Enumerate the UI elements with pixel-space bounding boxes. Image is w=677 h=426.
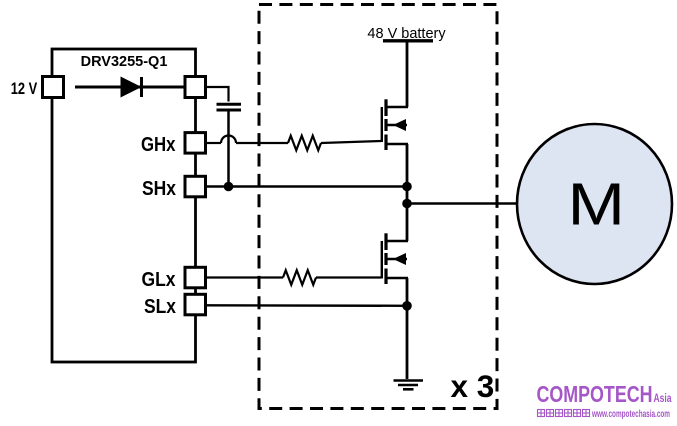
junction dot (switch node / motor) bbox=[402, 199, 412, 209]
resistor R2 (low-side gate) bbox=[283, 270, 316, 285]
svg-text:www.compotechasia.com: www.compotechasia.com bbox=[591, 408, 670, 420]
pin box VM (top right of driver) bbox=[185, 77, 206, 98]
svg-text:SHx: SHx bbox=[142, 177, 177, 200]
wire switch node to motor bbox=[407, 202, 517, 204]
wire GHx to hop bbox=[206, 142, 222, 144]
pin box SHx bbox=[185, 176, 206, 197]
wire hop over capacitor net bbox=[221, 136, 236, 144]
dashed enclosure (x3 half-bridge boundary) bbox=[259, 5, 497, 409]
transistor Q1 (high-side NMOS) bbox=[382, 99, 408, 150]
svg-text:DRV3255-Q1: DRV3255-Q1 bbox=[81, 54, 168, 70]
pin box 12V supply input bbox=[43, 77, 64, 98]
logo tagline CJK glyph 5 bbox=[574, 410, 581, 417]
svg-text:COMPOTECH: COMPOTECH bbox=[537, 381, 653, 407]
junction dot (SLx / ground net) bbox=[402, 301, 412, 311]
svg-text:SLx: SLx bbox=[144, 295, 176, 318]
battery rail bar bbox=[383, 39, 433, 42]
wire GLx to gate resistor bbox=[206, 276, 284, 278]
diode D1 (reverse protection) bbox=[121, 77, 142, 98]
svg-text:GHx: GHx bbox=[141, 133, 176, 156]
wire resistor to Q2 gate bbox=[316, 276, 381, 278]
wire SHx to switch node bbox=[206, 185, 408, 187]
logo tagline CJK glyph 1 bbox=[538, 410, 545, 417]
logo tagline CJK glyph 3 bbox=[556, 410, 563, 417]
wire battery to Q1 drain bbox=[406, 42, 409, 107]
junction dot (cap / SHx) bbox=[224, 182, 234, 192]
wire 12V to diode to VM pin bbox=[75, 86, 185, 89]
svg-text:M: M bbox=[568, 172, 626, 238]
svg-text:x 3: x 3 bbox=[451, 368, 495, 404]
gate driver block U1 DRV3255-Q1 outline bbox=[52, 49, 196, 362]
pin box SLx bbox=[185, 294, 206, 315]
logo tagline CJK glyph 2 bbox=[547, 410, 554, 417]
wire resistor to Q1 gate bbox=[321, 141, 381, 143]
pin box GHx bbox=[185, 133, 206, 154]
wire SLx to source node bbox=[206, 304, 408, 307]
wire capacitor bottom to SHx node bbox=[227, 112, 230, 187]
resistor R1 (high-side gate) bbox=[288, 136, 321, 151]
logo tagline CJK glyph 4 bbox=[565, 410, 572, 417]
svg-text:GLx: GLx bbox=[142, 268, 177, 291]
pin box GLx bbox=[185, 267, 206, 288]
junction dot (switch node / SHx) bbox=[402, 182, 412, 192]
motor M1 circle bbox=[517, 124, 672, 284]
transistor Q2 (low-side NMOS) bbox=[382, 233, 408, 284]
svg-text:12 V: 12 V bbox=[11, 80, 38, 98]
capacitor C1 (bootstrap) bbox=[217, 103, 242, 106]
ground symbol bbox=[394, 381, 424, 390]
svg-text:Asia: Asia bbox=[654, 393, 672, 405]
wire VM pin to bootstrap capacitor bbox=[206, 87, 229, 102]
logo tagline CJK glyph 6 bbox=[583, 410, 590, 417]
wire Q1 source to switch node bbox=[406, 144, 409, 241]
wire Q2 source to ground bbox=[406, 278, 409, 379]
wire hop to gate resistor bbox=[236, 142, 288, 144]
